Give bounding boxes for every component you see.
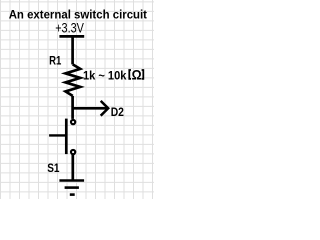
switch S1 bottom terminal circle	[71, 150, 75, 154]
value label bracket [	[129, 70, 131, 79]
power rail +3.3V bar	[59, 35, 84, 38]
svg-text:R1: R1	[49, 54, 61, 68]
svg-text:S1: S1	[47, 161, 60, 175]
svg-text:Ω: Ω	[132, 66, 142, 82]
wire from resistor bottom to switch S1 top terminal	[71, 96, 74, 119]
wire from power bar to resistor R1 top	[71, 36, 74, 64]
ground symbol bar 1	[59, 179, 84, 182]
value label bracket ]	[142, 70, 144, 79]
svg-text:D2: D2	[111, 105, 124, 119]
svg-text:1k ~ 10k: 1k ~ 10k	[83, 68, 127, 82]
switch S1 actuator stem	[49, 134, 66, 136]
ground symbol bar 3	[70, 193, 75, 196]
resistor R1 zigzag body	[66, 64, 81, 96]
svg-text:+3.3V: +3.3V	[55, 20, 84, 36]
wire junction branch to D2	[73, 107, 107, 110]
switch S1 top terminal circle	[71, 120, 75, 124]
wire from switch bottom terminal to ground	[71, 155, 74, 181]
ground symbol bar 2	[65, 186, 79, 189]
switch S1 actuator bar	[65, 119, 68, 155]
arrowhead to D2	[101, 101, 109, 116]
